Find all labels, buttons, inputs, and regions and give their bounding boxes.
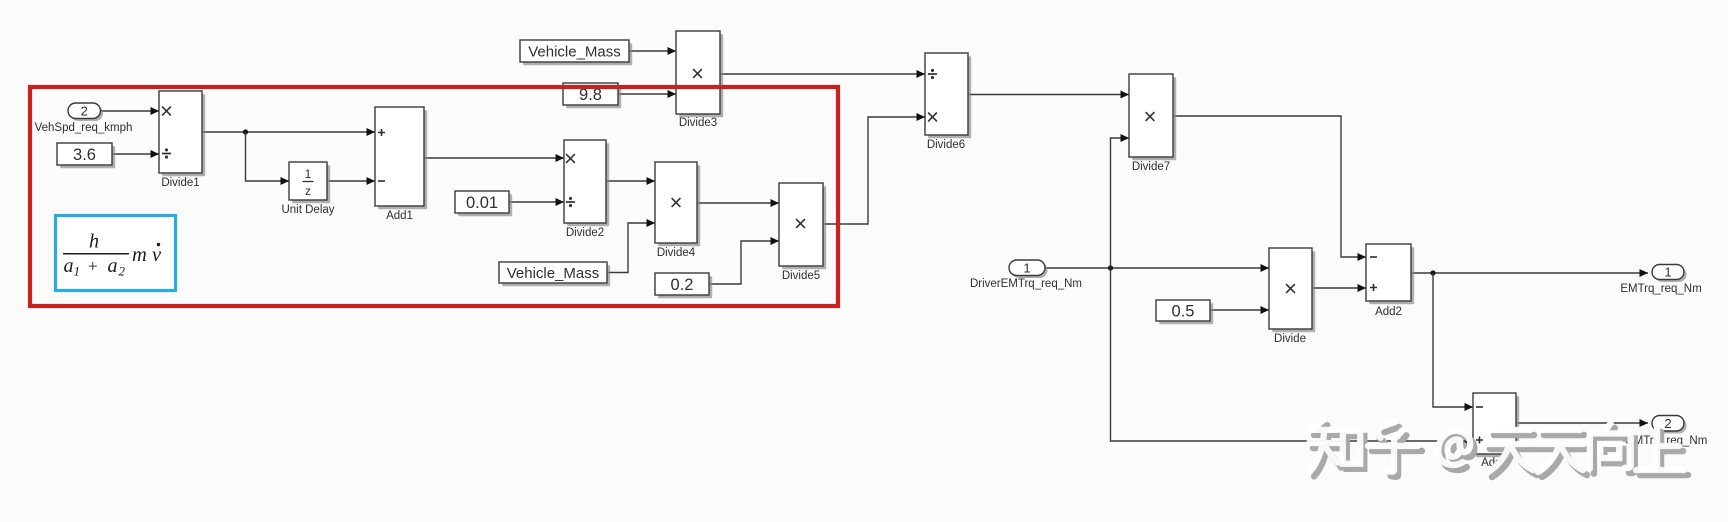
- svg-text:1: 1: [74, 264, 81, 279]
- wire Vehicle_Mass2 to Divide4 input2: [607, 219, 655, 273]
- formula h/(a1+a2) m vdot: [63, 231, 162, 279]
- constant 0.5: [1156, 300, 1213, 324]
- junction DriverEMTrq branch: [1108, 265, 1113, 270]
- svg-text:v: v: [152, 244, 162, 266]
- sum block Add2: [1366, 244, 1414, 304]
- constant 9.8: [563, 83, 621, 108]
- svg-text:m: m: [132, 244, 147, 266]
- Add3 minus symbol: [1476, 406, 1483, 408]
- Divide multiply symbol: [1286, 284, 1295, 293]
- product block Divide1: [159, 91, 205, 176]
- Divide2 divide symbol: [566, 197, 575, 207]
- wire branch down to Add3 input-: [1433, 273, 1473, 411]
- wire Divide3 out to Divide6 input1: [720, 70, 925, 78]
- junction Add2 output branch: [1430, 270, 1435, 275]
- constant Vehicle_Mass: [520, 40, 632, 65]
- watermark zhihu @tiantianxiangshang: [1309, 420, 1688, 477]
- Add2 plus symbol: [1370, 284, 1377, 291]
- product block Divide6: [925, 53, 971, 138]
- wire Vehicle_Mass to Divide3 input1: [629, 47, 676, 55]
- product block Divide3: [676, 31, 723, 117]
- red highlight rectangle annotation: [30, 87, 838, 306]
- wire const 0.5 to Divide input2: [1210, 306, 1269, 314]
- wire branch down to Add3 input+: [1111, 268, 1474, 445]
- svg-text:h: h: [89, 231, 99, 253]
- wire VehSpd port2 to Divide1 input1: [101, 107, 160, 115]
- wire Divide5 out to Divide6 input2: [823, 113, 925, 224]
- wire Divide4 out to Divide5 input1: [697, 199, 779, 207]
- wire Add3 out to port GMTrq_req_Nm: [1516, 419, 1648, 427]
- wire Divide7 out to Add2 input-: [1173, 116, 1366, 261]
- sum block Add1: [375, 107, 427, 209]
- product block Divide5: [779, 183, 826, 269]
- Add2 minus symbol: [1370, 256, 1377, 258]
- svg-text:a: a: [108, 255, 118, 277]
- svg-text:Add2: Add2: [1375, 306, 1402, 318]
- wire Divide2 out to Divide4 input1: [606, 177, 655, 185]
- svg-text:Vehicle_Mass: Vehicle_Mass: [528, 44, 621, 61]
- Divide5 multiply symbol: [796, 219, 805, 228]
- wire Unit Delay out to Add1 input-: [327, 177, 375, 185]
- wire const 3.6 to Divide1 input2: [112, 150, 159, 158]
- constant 0.01: [455, 191, 512, 216]
- wire branch to Unit Delay: [246, 132, 290, 185]
- svg-text:Unit Delay: Unit Delay: [281, 204, 334, 216]
- unit delay block Unit Delay: [289, 162, 330, 203]
- svg-text:Divide4: Divide4: [657, 247, 696, 259]
- input port 1: [1009, 260, 1048, 278]
- product block Divide4: [655, 162, 700, 246]
- svg-text:Divide: Divide: [1274, 333, 1306, 345]
- wire Add2 out to port EMTrq_req_Nm: [1411, 269, 1648, 277]
- svg-text:0.2: 0.2: [671, 276, 694, 294]
- input port 2: [68, 103, 103, 121]
- Add1 plus symbol: [378, 129, 385, 136]
- wire const 0.01 to Divide2 input2: [509, 198, 564, 206]
- output port 2 GMTrq: [1652, 416, 1687, 434]
- Divide6 multiply symbol: [928, 113, 937, 122]
- Divide1 multiply symbol: [162, 107, 171, 116]
- wire Divide6 out to Divide7 input1: [968, 91, 1129, 99]
- svg-text:3.6: 3.6: [73, 146, 96, 164]
- product block Divide: [1269, 248, 1315, 332]
- svg-text:0.01: 0.01: [466, 194, 498, 212]
- constant 0.2: [655, 273, 712, 298]
- constant Vehicle_Mass 2: [499, 262, 610, 286]
- constant 3.6: [57, 143, 115, 168]
- svg-text:2: 2: [119, 264, 126, 279]
- Divide4 multiply symbol: [672, 198, 681, 207]
- wire DriverEMTrq port1 to Divide input1: [1045, 264, 1269, 272]
- svg-text:+: +: [88, 257, 98, 276]
- Add1 minus symbol: [378, 180, 385, 182]
- svg-text:Vehicle_Mass: Vehicle_Mass: [507, 265, 600, 282]
- svg-text:z: z: [305, 184, 311, 198]
- product block Divide2: [564, 140, 609, 226]
- cyan formula box: [56, 216, 176, 291]
- svg-text:1: 1: [305, 167, 312, 181]
- wire Divide1 out to Add1 input+: [202, 128, 375, 136]
- wire Add1 out to Divide2 input1: [424, 154, 564, 162]
- svg-text:Divide1: Divide1: [161, 177, 199, 189]
- wire const 0.2 to Divide5 input2: [709, 237, 779, 284]
- svg-text:a: a: [64, 255, 74, 277]
- wire Divide out to Add2 input+: [1312, 284, 1366, 292]
- junction Divide1 output branch: [243, 129, 248, 134]
- Add3 plus symbol: [1476, 437, 1483, 444]
- svg-text:Divide7: Divide7: [1132, 161, 1170, 173]
- product block Divide7: [1129, 74, 1176, 160]
- Divide6 divide symbol: [928, 69, 937, 79]
- svg-text:EMTrq_req_Nm: EMTrq_req_Nm: [1620, 283, 1701, 295]
- svg-text:Divide6: Divide6: [927, 139, 965, 151]
- svg-text:DriverEMTrq_req_Nm: DriverEMTrq_req_Nm: [970, 278, 1082, 290]
- svg-text:Divide3: Divide3: [679, 117, 717, 129]
- Divide2 multiply symbol: [566, 154, 575, 163]
- svg-text:1: 1: [1664, 265, 1671, 280]
- svg-text:1: 1: [1023, 260, 1030, 275]
- output port 1 EMTrq: [1652, 265, 1687, 283]
- sum block Add3: [1473, 393, 1519, 457]
- svg-text:Divide5: Divide5: [782, 270, 820, 282]
- Divide7 multiply symbol: [1146, 112, 1155, 121]
- svg-text:2: 2: [1664, 416, 1671, 431]
- svg-text:Add1: Add1: [386, 210, 413, 222]
- wire const 9.8 to Divide3 input2: [618, 90, 676, 98]
- wire branch up to Divide7 input2: [1111, 134, 1130, 268]
- svg-text:0.5: 0.5: [1172, 303, 1195, 321]
- Unit Delay 1/z symbol: [303, 167, 314, 198]
- Divide3 multiply symbol: [693, 69, 702, 78]
- svg-text:Divide2: Divide2: [566, 227, 604, 239]
- Divide1 divide symbol: [162, 148, 171, 158]
- svg-text:VehSpd_req_kmph: VehSpd_req_kmph: [35, 122, 133, 134]
- svg-text:2: 2: [81, 103, 88, 118]
